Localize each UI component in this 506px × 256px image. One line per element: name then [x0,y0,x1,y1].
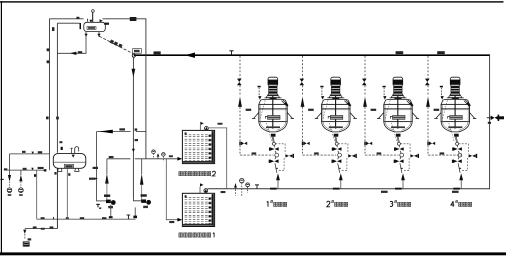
valve cluster under R3 [394,134,419,190]
return stub arrow at x141.7 [140,159,144,201]
furnace F1 [182,193,214,226]
label 240 before furnace2 [169,155,173,157]
labels on feed line y170.1 [4,168,7,170]
wire condensate line to downcomer [57,22,79,24]
label 3#反应釜 [390,200,411,206]
label 140 on drain return [78,51,82,53]
wire bottom collection line y219.2 [37,218,136,220]
label 240 under furnace1 feed [169,221,174,223]
outlet pump circle on F2 [205,126,209,130]
gauge PI on supply line [152,150,156,159]
T cap at collection line end [127,215,131,219]
valve cluster under R4 [452,134,477,190]
arrow on drain return [70,52,77,55]
outlet arrow condenser to vapor line [100,19,103,22]
feed drop to reactor R1 [237,56,274,155]
small arrow instrument on supply [157,153,160,159]
flow arrow down on x133 [132,69,136,77]
wire left riser x49 [49,19,51,154]
wire riser x49.5 lower part [49,154,51,170]
REACTOR R2 [315,77,357,141]
wire bottom return header [208,188,491,190]
REACTOR R3 [377,77,419,141]
label near F2 outlet [218,123,223,125]
drain valve on right downcomer [487,115,504,124]
valve tick at x57 above tank [61,147,63,150]
tick on drain drop [54,172,56,175]
instrument drop TI1 [7,154,12,196]
wire drain line to pit [25,228,58,230]
label PO2 on header [437,51,445,54]
pump P1 [97,195,116,219]
valve cluster under R2 [332,134,357,190]
dashed stem to pit [24,234,26,239]
labels on drain line [33,226,37,228]
REACTOR R1 [252,77,294,141]
label 24 left of vessel [76,17,79,19]
small nozzle on tank top [71,148,73,153]
gauge TI on return header [246,183,250,193]
tick on left border [0,178,3,180]
wire downcomer x57 [56,23,58,153]
instrument drop TI2 [19,170,24,196]
pump P2 [133,194,151,218]
wire main downcomer x133 [132,57,134,198]
valve cluster under R1 [269,134,294,190]
furnace1 nameplate 电加热导热油炉1 [179,233,214,238]
label right of downcomer x57 top [59,141,62,143]
vent flag on F1 [200,183,204,193]
tick on x67.3 [68,173,70,176]
wire furnace1 supply riser x166.3 [166,159,177,220]
condenser vessel E1 [84,22,106,31]
valve T on main header [229,51,233,55]
arrow into tank [72,155,75,158]
wire drop x36.7 to collection line [36,170,38,219]
label 240 under header near reactor4 [452,191,459,193]
label tick on riser [52,27,54,31]
tick on x36.7 [34,174,36,177]
tick label on x133 mid [135,128,138,130]
wire condenser drain return line [57,32,86,54]
REACTOR R4 [434,77,476,141]
vent flag on F2 [200,122,204,131]
border frame bottom thick bar [0,252,506,255]
wire drop to pump P1 [96,132,98,202]
label 240 on branch [119,128,125,130]
valve T cap on return header [255,185,259,189]
arrowhead on right leg [97,34,100,37]
wire F2 outlet to return header [208,128,226,189]
label 2#反应釜 [327,200,348,207]
wire branch line y131.5 with left arrow [97,130,146,134]
wire tank drop x67.3 [66,168,68,219]
tick mark on downcomer x57 [56,117,59,120]
tick labels on x95.8 [93,167,98,169]
feed drop to reactor R2 [300,56,337,155]
vent stack on condenser [92,10,95,23]
inlet arrow into condenser top [88,19,93,23]
label 1#反应釜 [267,200,287,207]
label PO1 on header [396,51,404,54]
furnace F2 [182,130,214,163]
return stub arrow at x106.9 [105,159,109,201]
swan neck vent on tank [75,147,79,154]
label box PW near header left end [133,49,142,54]
gauge PI on return header [240,178,244,195]
wire feed line y170.1 [7,169,46,171]
labels on feed line y153.9 [22,151,26,153]
arrow instrument at x235.5 on return header [234,183,237,196]
gauge TI on supply line [162,153,166,162]
tank T1 [53,153,86,168]
junction node at header left end [132,54,135,57]
label 240 on header [154,51,161,54]
label 240 near elbow [130,17,137,21]
condenser right leg [98,32,100,37]
wire tank drop to drain x57.4 [56,168,58,228]
wire furnace supply line y158.8 [107,157,182,161]
label 4#反应釜 [451,200,472,207]
label 140 on supply [109,156,114,158]
labels on collection line [41,217,45,219]
wire right downcomer [489,55,491,189]
label 240 under header near reactor3 [381,191,388,193]
outlet pump circle on F1 [204,189,208,194]
arrow on main header [185,53,195,58]
wire feed line y153.9 [10,153,50,155]
drain down arrow [23,230,26,234]
tick marks on riser x49 [47,48,50,51]
drain pit symbol [23,241,30,246]
wire main supply header [134,54,490,56]
tick near pump P1 [96,204,101,209]
arrowhead on condenser left leg [85,34,88,37]
furnace2 nameplate 电加热导热油炉2 [179,171,216,176]
tank legs [58,168,80,171]
label on diagonal [110,40,123,48]
border frame top [0,1,504,2]
feed drop to reactor R3 [362,56,399,155]
feed drop to reactor R4 [425,56,462,155]
border frame left [1,1,2,253]
small arrow on x133 at 150 [132,149,135,152]
dashed diagonal to sewer junction [99,36,133,53]
label at pit [28,238,32,240]
valve bar on condenser left nozzle [80,23,82,29]
arrow into furnace1 [177,218,182,222]
label 140 right of condenser [104,23,109,25]
wire vapor line left segment [50,18,84,20]
wire vapor line right segment with elbow down [103,19,146,159]
label 240 on return header [221,191,226,193]
